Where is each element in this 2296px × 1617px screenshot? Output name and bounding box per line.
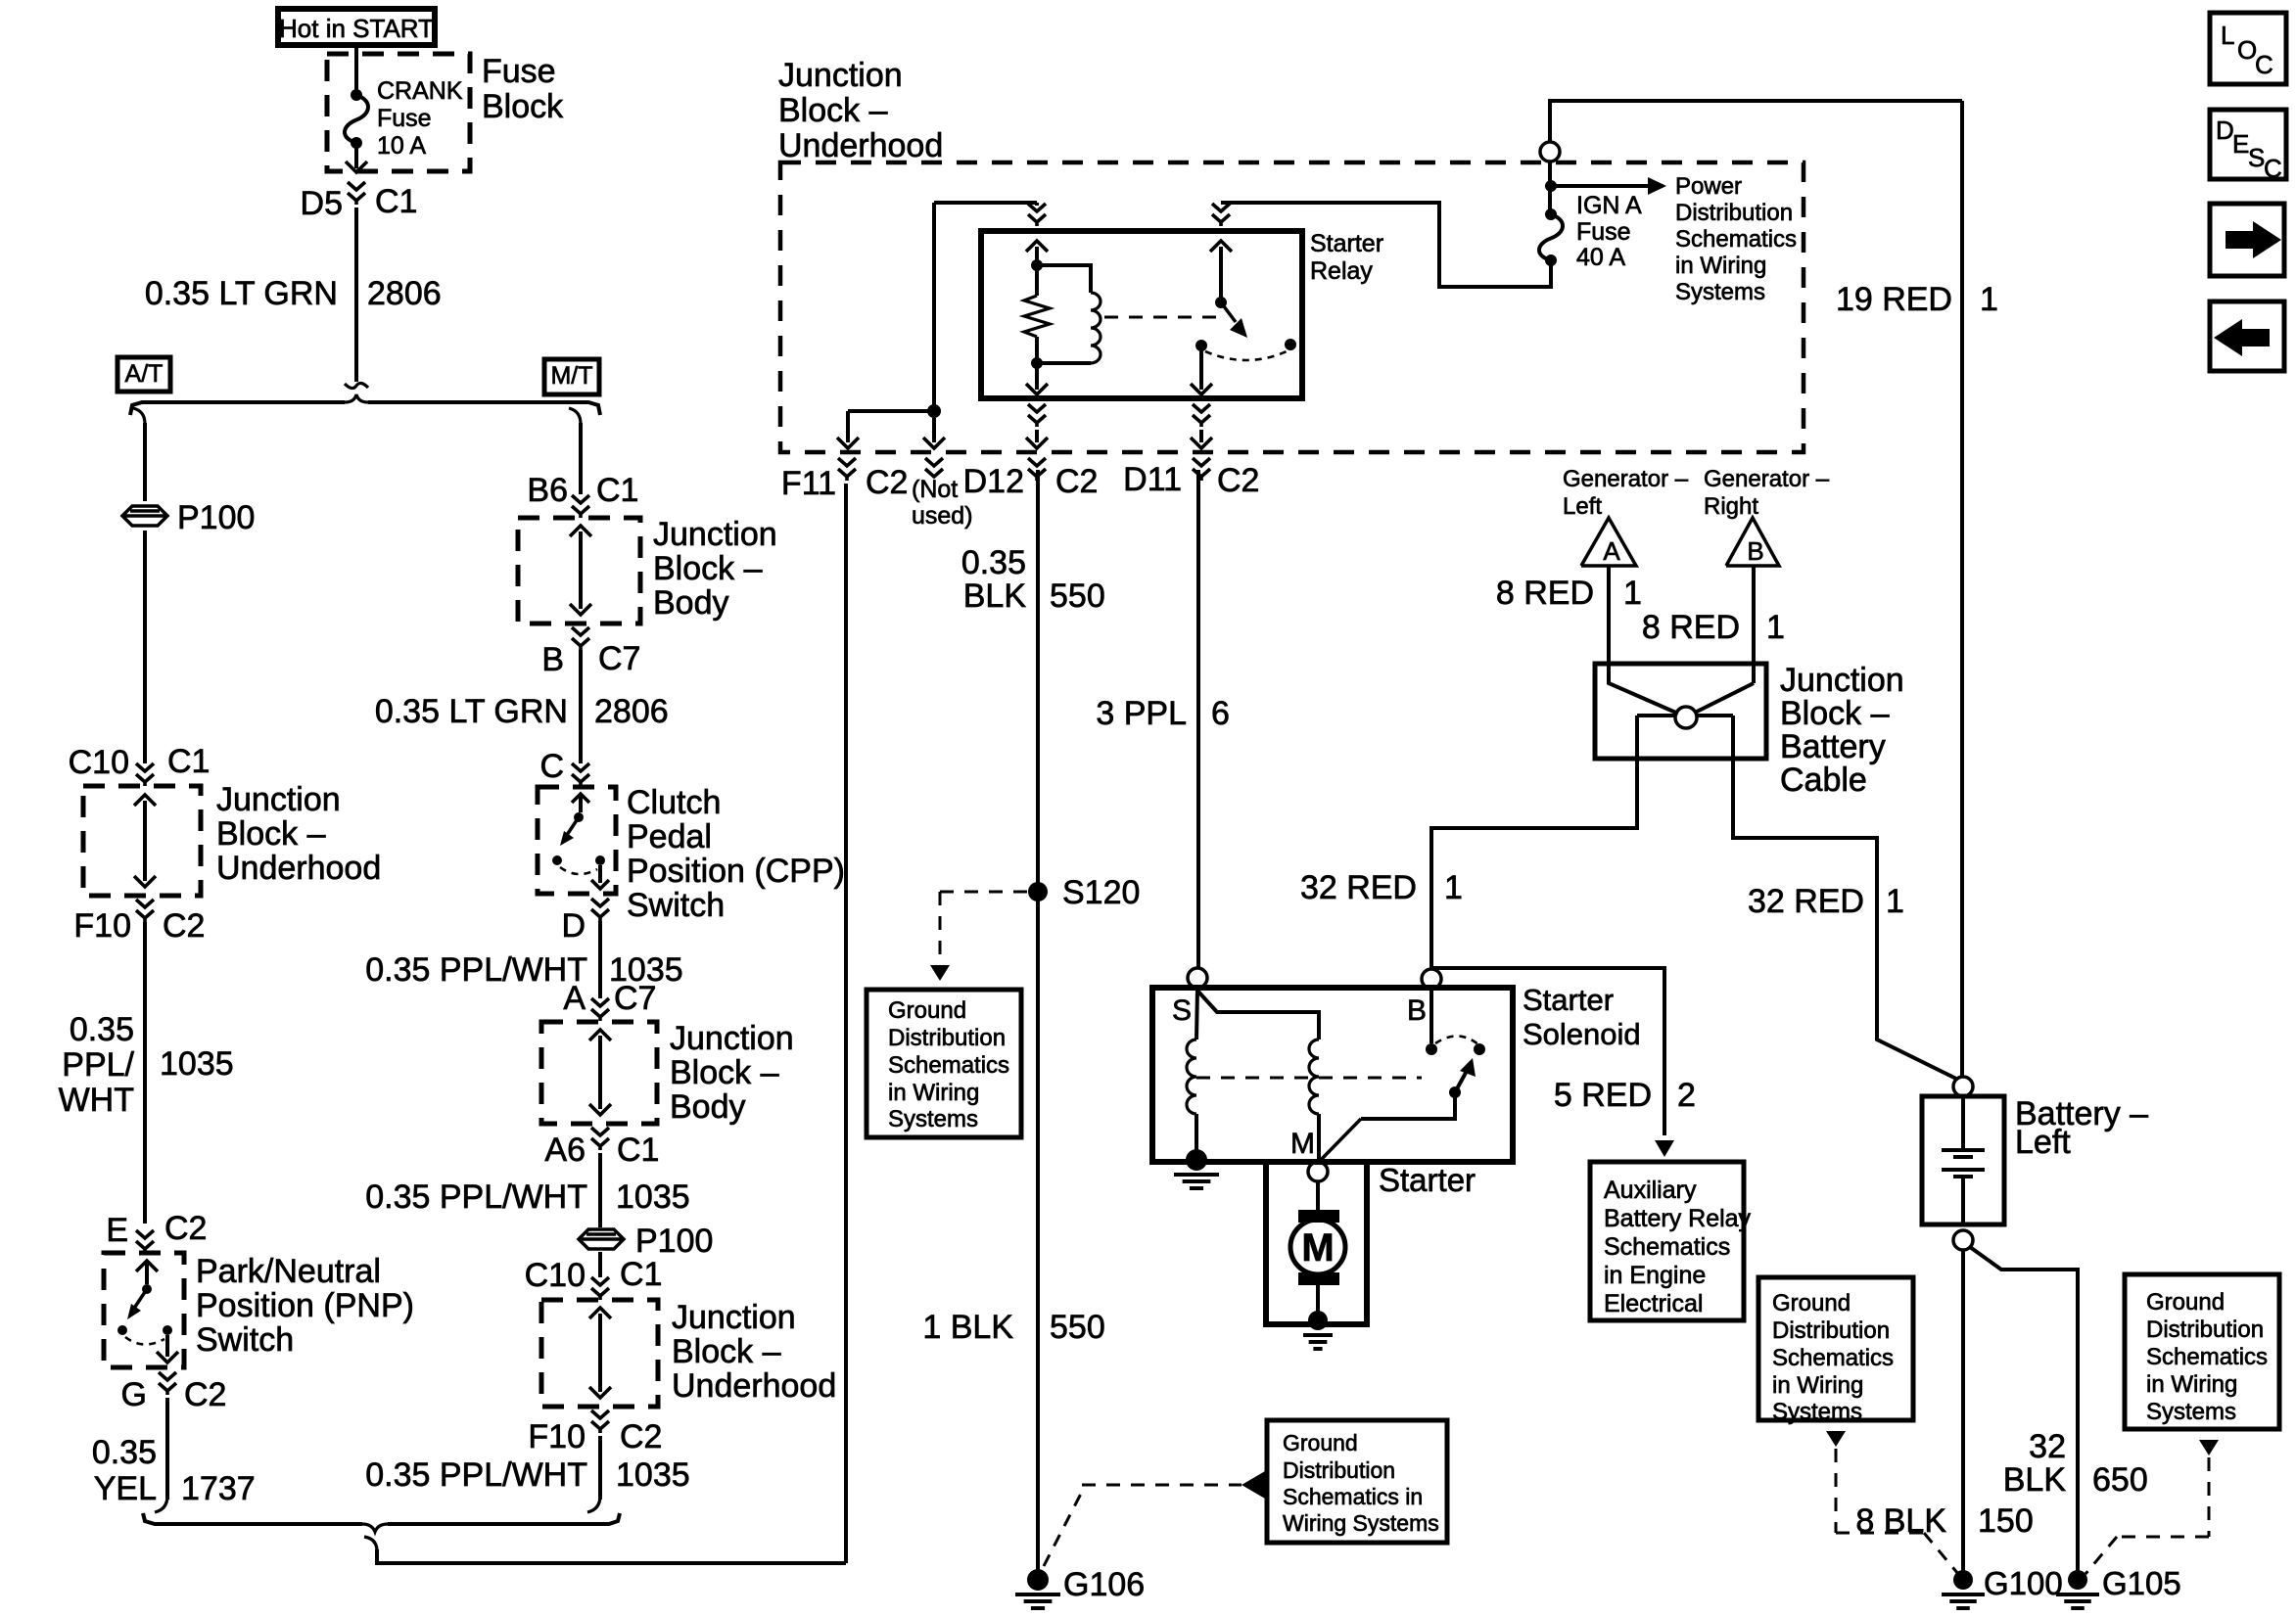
svg-text:C2: C2 [866, 464, 908, 501]
svg-text:WHT: WHT [59, 1082, 134, 1119]
svg-text:F10: F10 [528, 1418, 586, 1455]
relay coil return [1037, 361, 1091, 365]
svg-text:C: C [2264, 154, 2282, 183]
relay coil output arrow [1035, 363, 1039, 390]
starter motor feed wire [1316, 1181, 1320, 1210]
svg-text:Starter: Starter [1379, 1162, 1476, 1198]
wire battery to G100 [1961, 1250, 1965, 1571]
svg-text:Left: Left [1563, 493, 1602, 520]
junction block underhood big dashed box [780, 162, 1804, 452]
svg-text:C10: C10 [525, 1257, 586, 1294]
ground G106 [1027, 1569, 1049, 1591]
ground distribution box (G105) [2125, 1274, 2279, 1429]
svg-text:Solenoid: Solenoid [1523, 1017, 1641, 1051]
relay node top [1031, 259, 1043, 271]
connector A6/C1 symbol [591, 1128, 609, 1135]
svg-text:C2: C2 [1055, 463, 1098, 500]
svg-text:G: G [121, 1376, 147, 1413]
svg-text:G106: G106 [1063, 1566, 1145, 1603]
M/T option box [544, 359, 599, 394]
svg-text:Battery: Battery [1780, 728, 1886, 765]
terminal circle IGN A feed [1540, 142, 1560, 162]
connector F11/C2 symbol [838, 458, 856, 466]
ground distribution box (G106) [1267, 1420, 1447, 1543]
svg-text:used): used) [912, 502, 973, 530]
wire fuse output with arrow [354, 143, 358, 168]
junction block body dashed box (lower) [541, 1022, 657, 1124]
junction block body dashed box (upper) [518, 518, 640, 624]
svg-text:0.35 LT GRN: 0.35 LT GRN [145, 275, 338, 312]
svg-text:Generator –: Generator – [1563, 466, 1689, 492]
svg-text:D: D [561, 907, 586, 945]
svg-text:C: C [539, 748, 564, 785]
wire generator B 8 RED [1752, 566, 1756, 683]
connector relay switch output symbol [1193, 404, 1210, 412]
svg-text:D12: D12 [963, 463, 1024, 500]
svg-text:Power: Power [1675, 173, 1742, 200]
connector A/C7 symbol [591, 998, 609, 1006]
junction block pass-through arrow (body upper) [579, 531, 583, 609]
svg-text:Ground: Ground [1283, 1430, 1358, 1455]
wire 32 RED left to solenoid B [1431, 716, 1637, 969]
connector D/C7 symbol [591, 899, 609, 906]
svg-text:Block –: Block – [778, 92, 888, 129]
svg-text:D: D [2216, 115, 2234, 145]
relay switch travel dashed arc [1205, 351, 1287, 360]
svg-text:YEL: YEL [94, 1470, 157, 1507]
relay switch pivot [1215, 297, 1227, 308]
dashed reference from G106 [1044, 1492, 1082, 1566]
svg-text:Block –: Block – [216, 815, 326, 853]
svg-text:550: 550 [1050, 1309, 1105, 1346]
svg-text:L: L [2221, 21, 2234, 50]
svg-text:Ground: Ground [2146, 1289, 2225, 1316]
arrow to Power Distribution [1551, 184, 1648, 188]
svg-text:Distribution: Distribution [2146, 1317, 2264, 1343]
svg-text:M/T: M/T [550, 362, 592, 390]
wire coil feed vertical [932, 203, 936, 411]
svg-text:Fuse: Fuse [482, 53, 556, 90]
connector P100 pass-through (mid) [579, 1229, 624, 1249]
svg-text:Cable: Cable [1780, 762, 1867, 799]
relay switch contact left [1195, 340, 1207, 351]
svg-text:0.35: 0.35 [92, 1434, 157, 1471]
wire relay coil input [1035, 203, 1039, 206]
svg-text:1035: 1035 [616, 1456, 690, 1494]
svg-text:Electrical: Electrical [1604, 1290, 1703, 1317]
ground distribution box (G100) [1758, 1277, 1913, 1420]
connector D11/C2 symbol [1193, 458, 1210, 466]
svg-text:C: C [2255, 50, 2273, 79]
svg-text:1 BLK: 1 BLK [922, 1309, 1013, 1346]
svg-text:A/T: A/T [125, 360, 164, 388]
power label box Hot in START [278, 9, 435, 45]
connector C10/C1 symbol (left) [136, 763, 154, 771]
svg-text:1: 1 [1444, 869, 1463, 906]
solenoid right contact dot [1474, 1043, 1485, 1055]
connector C2 not used symbol [925, 458, 943, 466]
svg-text:Hot in START: Hot in START [279, 14, 434, 43]
junction node IGN A [1545, 180, 1557, 192]
starter relay box [981, 231, 1302, 398]
svg-text:B: B [1747, 536, 1763, 566]
connector B6/C1 symbol [572, 495, 589, 503]
connector P100 pass-through (left) [122, 506, 167, 526]
A/T branch curl [133, 408, 145, 424]
dashed reference from S120 [940, 891, 1027, 894]
park/neutral position switch dashed box [104, 1253, 184, 1367]
legend box arrow left [2210, 301, 2284, 371]
legend box DESC [2210, 110, 2286, 179]
solenoid actuation dashed link [1196, 1077, 1422, 1080]
svg-text:Block: Block [482, 88, 564, 125]
battery bottom terminal circle [1953, 1230, 1973, 1250]
wire F11 link to coil feed [848, 409, 934, 413]
svg-text:1: 1 [1766, 609, 1785, 646]
svg-text:C7: C7 [614, 980, 656, 1017]
junction block underhood dashed box (left) [83, 786, 201, 896]
wire F11 arrow into connector [846, 411, 850, 442]
svg-text:Systems: Systems [2146, 1399, 2236, 1425]
svg-text:0.35 PPL/WHT: 0.35 PPL/WHT [365, 1456, 587, 1494]
svg-text:(Not: (Not [912, 476, 958, 503]
svg-text:8 RED: 8 RED [1642, 609, 1740, 646]
svg-text:IGN A: IGN A [1576, 192, 1642, 219]
svg-text:2: 2 [1677, 1077, 1696, 1114]
svg-text:1: 1 [1980, 281, 1998, 318]
battery cell symbol [1961, 1096, 1965, 1150]
svg-text:Left: Left [2015, 1124, 2071, 1161]
svg-text:B6: B6 [527, 472, 568, 509]
wire D12 0.35 BLK 550 [1036, 470, 1040, 1571]
connector F10/C2 symbol (left) [136, 900, 154, 907]
svg-text:C1: C1 [620, 1256, 662, 1293]
svg-text:Schematics: Schematics [1772, 1345, 1894, 1371]
svg-text:A: A [1603, 536, 1620, 566]
svg-text:in Engine: in Engine [1604, 1262, 1706, 1289]
svg-text:32 RED: 32 RED [1300, 869, 1417, 906]
solenoid B contact dot [1426, 1043, 1437, 1055]
svg-text:Block –: Block – [672, 1333, 781, 1370]
wire A/T branch down to P100 [143, 423, 147, 501]
svg-text:0.35 LT GRN: 0.35 LT GRN [375, 693, 568, 730]
starter motor bottom brush pad [1298, 1272, 1339, 1285]
solenoid ground node [1186, 1149, 1207, 1171]
svg-text:1035: 1035 [160, 1045, 234, 1083]
svg-text:32 RED: 32 RED [1748, 883, 1864, 920]
svg-text:Pedal: Pedal [627, 818, 712, 855]
svg-text:Schematics: Schematics [1604, 1233, 1730, 1261]
wire coil feed horizontal [934, 201, 1037, 205]
starter ground node [1308, 1311, 1328, 1330]
junction block underhood dashed box (mid) [541, 1300, 658, 1407]
connector E/C2 symbol [136, 1230, 154, 1238]
relay coil input arrow [1035, 247, 1039, 262]
svg-text:Block –: Block – [670, 1054, 779, 1091]
svg-text:0.35: 0.35 [961, 544, 1026, 581]
svg-text:0.35: 0.35 [70, 1011, 134, 1048]
svg-text:Systems: Systems [1675, 279, 1765, 305]
svg-text:Body: Body [653, 584, 729, 622]
legend box LOC [2210, 13, 2286, 84]
svg-text:C1: C1 [375, 183, 417, 220]
legend box arrow right [2210, 204, 2284, 276]
connector relay coil output symbol [1028, 404, 1046, 412]
svg-text:Auxiliary: Auxiliary [1604, 1177, 1697, 1204]
junction block pass-through arrow (left) [143, 801, 147, 881]
wire 0.35 PPL/WHT 1035 end [598, 1436, 602, 1500]
junction block pass-through arrow (body lower) [598, 1036, 602, 1109]
svg-text:M: M [1301, 1226, 1334, 1270]
svg-text:in Wiring: in Wiring [2146, 1371, 2237, 1398]
connector F10/C2 symbol (mid) [591, 1410, 609, 1418]
svg-text:Schematics: Schematics [1675, 226, 1797, 253]
wire 32 RED right to battery [1733, 716, 1956, 1079]
svg-text:C1: C1 [596, 472, 638, 509]
terminal circle B [1422, 969, 1441, 989]
wire 0.35 PPL/WHT (mid upper) [598, 921, 602, 998]
svg-text:S: S [2248, 143, 2265, 172]
auxiliary battery relay box [1590, 1162, 1744, 1320]
svg-text:C7: C7 [598, 640, 640, 677]
wire 0.35 PPL/WHT 1035 (left) [143, 922, 147, 1224]
svg-text:650: 650 [2092, 1461, 2148, 1499]
wire 0.35 YEL 1737 [165, 1398, 169, 1500]
svg-text:Fuse: Fuse [1576, 218, 1631, 246]
svg-text:G100: G100 [1984, 1565, 2063, 1601]
svg-text:40 A: 40 A [1576, 244, 1625, 271]
ground G100 [1953, 1570, 1973, 1590]
svg-text:BLK: BLK [963, 577, 1027, 615]
svg-text:P100: P100 [635, 1223, 713, 1260]
svg-text:Underhood: Underhood [672, 1367, 836, 1405]
svg-text:C2: C2 [620, 1418, 662, 1455]
svg-text:Junction: Junction [670, 1020, 794, 1057]
junction block battery cable box [1595, 664, 1766, 759]
splice S120 [1028, 882, 1048, 901]
dashed reference to G105 [2199, 1440, 2219, 1455]
wire from Hot in START into fuse block [354, 45, 358, 93]
ground G105 [2068, 1570, 2087, 1590]
starter motor ground wire [1316, 1285, 1320, 1316]
connector switch input symbol [1212, 204, 1230, 211]
wire M/T branch down [579, 423, 583, 494]
relay resistor [1035, 265, 1039, 296]
svg-text:Distribution: Distribution [1772, 1317, 1890, 1344]
svg-text:Distribution: Distribution [1283, 1457, 1395, 1483]
svg-text:2806: 2806 [594, 693, 669, 730]
connector C10/C1 symbol (mid) [591, 1277, 609, 1285]
relay node bottom [1031, 357, 1043, 369]
connector B/C7 symbol [572, 627, 589, 635]
wire F11 down to merge [844, 484, 848, 1563]
svg-text:Right: Right [1704, 493, 1758, 520]
relay switch input arrow [1219, 247, 1223, 299]
svg-text:Starter: Starter [1523, 983, 1614, 1017]
svg-text:C2: C2 [1217, 462, 1259, 499]
svg-text:0.35 PPL/WHT: 0.35 PPL/WHT [365, 951, 587, 989]
wire D11 arrow to C2 [1199, 430, 1203, 442]
svg-text:5 RED: 5 RED [1554, 1077, 1652, 1114]
svg-text:Systems: Systems [888, 1106, 978, 1132]
M/T branch curl [569, 408, 581, 424]
battery left box [1922, 1096, 2004, 1224]
svg-text:Position (CPP): Position (CPP) [627, 853, 845, 890]
wire P100 to C10/C1 (mid) [598, 1252, 602, 1277]
connector C/C7 symbol [572, 763, 589, 771]
svg-text:8 RED: 8 RED [1496, 575, 1594, 612]
svg-text:Junction: Junction [653, 516, 777, 553]
wire IGN A fuse to relay switch [1221, 203, 1551, 287]
connector G/C2 symbol [159, 1372, 176, 1380]
M/T wire end curl [587, 1496, 600, 1512]
relay coil windings [1091, 293, 1101, 363]
option split bracket [130, 402, 345, 415]
svg-text:Systems: Systems [1772, 1399, 1862, 1425]
svg-text:Underhood: Underhood [778, 127, 943, 164]
svg-text:Schematics: Schematics [888, 1052, 1009, 1079]
svg-text:in Wiring: in Wiring [1772, 1372, 1863, 1399]
solenoid hold coil to M [1317, 1114, 1321, 1162]
svg-text:32: 32 [2029, 1428, 2066, 1465]
svg-text:Underhood: Underhood [216, 850, 381, 887]
svg-text:E: E [2232, 129, 2249, 159]
svg-text:B: B [541, 641, 564, 678]
solenoid S feed split [1196, 988, 1197, 1039]
starter box [1266, 1162, 1367, 1324]
wire 0.35 LT GRN 2806 (mid) [579, 650, 583, 763]
svg-text:Schematics: Schematics [2146, 1344, 2268, 1370]
svg-text:CRANK: CRANK [377, 77, 463, 105]
starter motor top brush pad [1298, 1210, 1339, 1223]
generator right triangle B [1726, 518, 1779, 566]
svg-text:1: 1 [1886, 883, 1904, 920]
junction block pass-through arrow (underhood mid) [598, 1314, 602, 1392]
svg-text:6: 6 [1211, 695, 1230, 732]
svg-text:Distribution: Distribution [1675, 200, 1793, 226]
svg-text:F10: F10 [73, 907, 131, 945]
solenoid coil ground wire [1195, 1114, 1198, 1155]
svg-text:Park/Neutral: Park/Neutral [196, 1253, 381, 1290]
solenoid travel dashed arc [1435, 1036, 1479, 1045]
svg-text:F11: F11 [781, 465, 836, 502]
svg-text:Junction: Junction [778, 57, 903, 94]
svg-text:Ground: Ground [1772, 1290, 1851, 1317]
svg-text:3 PPL: 3 PPL [1096, 695, 1187, 732]
ground distribution box (S120) [867, 990, 1021, 1137]
fuse CRANK 10A element [351, 89, 362, 101]
connector coil input symbol [1028, 204, 1046, 211]
relay actuation dashed link [1104, 316, 1216, 319]
connector C1 pin D5 symbol [348, 182, 365, 190]
svg-text:S: S [1172, 994, 1192, 1027]
svg-text:Ground: Ground [888, 997, 966, 1024]
svg-text:S120: S120 [1062, 874, 1140, 911]
svg-text:550: 550 [1050, 577, 1105, 615]
wire IGN A below terminal [1548, 162, 1552, 211]
svg-text:10 A: 10 A [377, 132, 426, 160]
svg-text:B: B [1407, 994, 1427, 1027]
svg-text:Position (PNP): Position (PNP) [196, 1287, 414, 1324]
svg-text:1737: 1737 [181, 1470, 256, 1507]
generator left triangle A [1581, 518, 1636, 566]
svg-text:Body: Body [670, 1088, 746, 1126]
wire (not used) arrow [932, 418, 936, 442]
junction block battery cable internals [1609, 666, 1678, 714]
svg-text:Junction: Junction [216, 781, 341, 818]
svg-text:Starter: Starter [1310, 230, 1383, 257]
svg-text:M: M [1290, 1128, 1315, 1160]
svg-text:Schematics in: Schematics in [1283, 1484, 1423, 1509]
svg-text:1035: 1035 [616, 1178, 690, 1216]
starter motor M circle [1290, 1220, 1345, 1274]
svg-text:E: E [106, 1212, 128, 1249]
svg-text:1: 1 [1623, 575, 1642, 612]
svg-text:C10: C10 [69, 744, 129, 781]
svg-text:Fuse: Fuse [377, 105, 432, 132]
wire D11 3 PPL 6 [1196, 470, 1200, 968]
clutch pedal position switch dashed box [538, 787, 616, 894]
wire 0.35 PPL/WHT 1035 (mid lower) [598, 1153, 602, 1227]
PNP switch contacts and arm [136, 1261, 158, 1271]
solenoid arm pivot dot [1449, 1086, 1461, 1098]
battery top terminal circle [1953, 1077, 1973, 1096]
A/T wire end curl [155, 1496, 167, 1512]
svg-text:Block –: Block – [653, 550, 763, 587]
solenoid switch arm [1455, 1073, 1466, 1092]
svg-text:Wiring Systems: Wiring Systems [1283, 1510, 1439, 1536]
svg-text:Switch: Switch [196, 1321, 294, 1359]
relay switch arm [1221, 302, 1236, 322]
svg-text:A6: A6 [544, 1132, 586, 1169]
svg-text:C2: C2 [184, 1376, 226, 1413]
svg-text:C1: C1 [167, 743, 210, 780]
wire 0.35 LT GRN 2806 from fuse [354, 208, 358, 382]
merge bracket [143, 1513, 362, 1524]
solenoid hold-in coil [1309, 1039, 1319, 1114]
svg-text:150: 150 [1978, 1502, 2034, 1540]
wire 19 RED top run [1550, 101, 1962, 142]
merge output curl [364, 1537, 377, 1551]
svg-text:Junction: Junction [1780, 662, 1904, 699]
relay switch contact right [1285, 339, 1296, 350]
svg-text:D5: D5 [301, 185, 343, 222]
terminal circle S [1188, 968, 1207, 988]
dashed reference to G100 [1826, 1431, 1846, 1447]
relay switch output arrow [1199, 349, 1203, 390]
svg-text:Block –: Block – [1780, 695, 1890, 732]
wire D12 arrow to C2 [1035, 430, 1039, 442]
starter solenoid box [1152, 988, 1513, 1162]
junction node on coil feed [927, 404, 941, 418]
fuse IGN A 40A element [1545, 208, 1557, 220]
svg-text:P100: P100 [177, 499, 255, 536]
svg-text:Generator –: Generator – [1704, 466, 1830, 492]
svg-text:Junction: Junction [672, 1299, 796, 1336]
wire battery to G105 32 BLK 650 [1970, 1247, 2078, 1571]
svg-text:Switch: Switch [627, 887, 725, 924]
svg-text:A: A [563, 980, 586, 1017]
svg-text:2806: 2806 [367, 275, 442, 312]
svg-text:C2: C2 [163, 907, 205, 945]
svg-text:C2: C2 [164, 1210, 207, 1247]
connector D12/C2 symbol [1028, 458, 1046, 466]
A/T option box [117, 357, 170, 392]
wire merged output to F11 line [377, 1549, 846, 1563]
solenoid pull-in coil [1187, 1039, 1196, 1114]
wire 5 RED from B [1431, 968, 1664, 1135]
svg-text:C1: C1 [617, 1132, 659, 1169]
